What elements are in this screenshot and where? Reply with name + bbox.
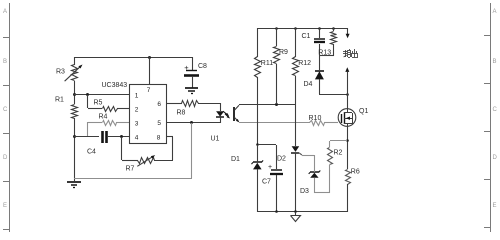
wire Q1 source	[347, 126, 349, 169]
svg-text:E: E	[493, 203, 497, 209]
svg-text:D: D	[493, 155, 498, 161]
resistor R1	[55, 97, 78, 119]
svg-text:R7: R7	[126, 166, 135, 173]
svg-text:R3: R3	[56, 69, 65, 76]
svg-text:D: D	[3, 155, 8, 161]
node R5 junction	[86, 93, 89, 96]
svg-text:7: 7	[147, 87, 151, 94]
svg-text:E: E	[3, 203, 7, 209]
wire pin7	[149, 57, 151, 85]
wire left column low	[74, 118, 76, 181]
node D1 junction	[256, 143, 259, 146]
resistor R7	[122, 137, 174, 173]
wire opto collector	[239, 103, 297, 106]
transistor Q1	[338, 108, 368, 126]
svg-text:C1: C1	[302, 33, 311, 40]
svg-text:Q1: Q1	[359, 108, 368, 115]
op-amp U1 UC3843 box	[102, 82, 167, 144]
resistor R13	[318, 28, 336, 57]
svg-text:C: C	[3, 107, 8, 113]
resistor R5	[88, 99, 130, 111]
node R13 tap	[332, 27, 335, 30]
resistor R10	[309, 115, 339, 126]
port output plus arrow	[346, 28, 350, 38]
svg-text:5: 5	[157, 120, 161, 127]
sheet border left	[3, 3, 10, 232]
resistor R4	[88, 113, 130, 125]
wire top rail	[258, 28, 348, 30]
node R2 branch	[346, 139, 349, 142]
svg-text:2: 2	[135, 107, 139, 114]
resistor R11	[255, 57, 274, 78]
node pin7 junction	[148, 56, 151, 59]
ground C8	[185, 88, 198, 94]
wire R12 column bottom	[295, 76, 297, 146]
svg-text:A: A	[3, 9, 7, 15]
wire top-left rail	[74, 57, 192, 59]
ground power-gnd	[291, 212, 301, 222]
resistor R9	[274, 47, 289, 64]
svg-text:1: 1	[135, 93, 139, 100]
svg-text:D4: D4	[304, 81, 313, 88]
svg-text:R8: R8	[177, 109, 186, 116]
svg-text:8: 8	[157, 134, 161, 141]
resistor R8	[177, 101, 221, 117]
svg-text:R2: R2	[334, 150, 343, 157]
opto U1 phototransistor	[234, 105, 239, 122]
svg-text:C4: C4	[87, 149, 96, 156]
diode D2	[277, 146, 302, 162]
node A junction	[73, 93, 76, 96]
wire pin4 left	[74, 136, 99, 138]
label output	[343, 49, 358, 58]
resistor R6	[346, 169, 360, 212]
svg-text:UC3843: UC3843	[102, 82, 128, 89]
node C4 junction	[73, 135, 76, 138]
capacitor C8	[184, 63, 207, 88]
node collector-R9 junction	[275, 103, 278, 106]
svg-text:D2: D2	[277, 155, 286, 162]
wire pin5	[167, 122, 220, 124]
wire gate net	[239, 122, 310, 124]
wire R9 column bottom	[276, 64, 278, 104]
svg-text:D3: D3	[300, 188, 309, 195]
wire pin4 right	[107, 136, 130, 138]
svg-text:U1: U1	[211, 135, 220, 142]
wire LED anode	[220, 103, 222, 111]
svg-text:4: 4	[135, 134, 139, 141]
svg-text:R12: R12	[298, 60, 311, 67]
wire D2 column	[295, 153, 297, 212]
svg-text:R11: R11	[261, 60, 273, 67]
ground left	[67, 182, 81, 188]
svg-text:R13: R13	[318, 50, 331, 57]
opto U1 LED	[211, 111, 225, 142]
diode D3 zener	[300, 155, 320, 195]
svg-text:R5: R5	[94, 99, 103, 106]
node pin5 junction	[190, 121, 193, 124]
wire R9 column top	[276, 28, 278, 46]
node C1 tap	[318, 27, 321, 30]
resistor R12	[293, 57, 312, 76]
port output minus arrow	[345, 67, 349, 109]
wire R4 drop	[87, 122, 89, 137]
resistor R2	[328, 148, 343, 165]
wire R12 column top	[295, 28, 297, 57]
capacitor C7	[262, 164, 283, 212]
wire left column top	[74, 57, 76, 65]
wire pin8 stub	[167, 137, 173, 161]
wire riser to bottom rail	[191, 123, 193, 178]
svg-text:R9: R9	[279, 49, 288, 56]
node output column junction	[346, 93, 349, 96]
wire R11 column bottom	[257, 77, 259, 145]
opto U1 emission arrows	[223, 111, 230, 118]
svg-text:R10: R10	[309, 115, 322, 122]
svg-text:R6: R6	[351, 169, 360, 176]
sheet border right	[484, 3, 498, 232]
diode D1 zener	[231, 145, 263, 212]
wire bottom-left rail	[74, 178, 192, 180]
wire D4 to output column	[319, 94, 347, 96]
wire pin1	[74, 94, 130, 96]
svg-text:6: 6	[157, 101, 161, 108]
wire Vcc drop to C8	[192, 57, 194, 70]
node D2 rail	[294, 210, 297, 213]
wire pin6	[167, 103, 182, 105]
node R7 junction	[120, 135, 123, 138]
capacitor C1	[302, 28, 326, 70]
node C7 rail	[275, 210, 278, 213]
capacitor C4	[87, 131, 107, 156]
wire R5 drop	[87, 95, 89, 108]
wire R2 to D3	[314, 165, 330, 193]
wire bottom rail	[258, 211, 347, 213]
wire D2 to D3	[302, 155, 314, 157]
wire R2 branch	[330, 141, 348, 148]
wire R11 column top	[257, 28, 259, 57]
svg-text:3: 3	[135, 120, 139, 127]
svg-text:B: B	[493, 59, 497, 65]
diode D4	[304, 71, 325, 94]
svg-text:A: A	[493, 9, 497, 15]
svg-text:D1: D1	[231, 156, 240, 163]
node R12 tap	[294, 27, 297, 30]
resistor R3	[56, 65, 83, 82]
svg-text:R1: R1	[55, 97, 64, 104]
wire D1-C7 bend	[258, 145, 277, 170]
svg-text:R4: R4	[99, 113, 108, 120]
svg-text:+: +	[184, 63, 189, 72]
svg-text:C7: C7	[262, 178, 271, 185]
svg-text:C8: C8	[198, 63, 207, 70]
wire left column mid	[74, 81, 76, 104]
node R9 tap	[275, 27, 278, 30]
svg-text:B: B	[3, 59, 7, 65]
svg-text:C: C	[493, 107, 498, 113]
